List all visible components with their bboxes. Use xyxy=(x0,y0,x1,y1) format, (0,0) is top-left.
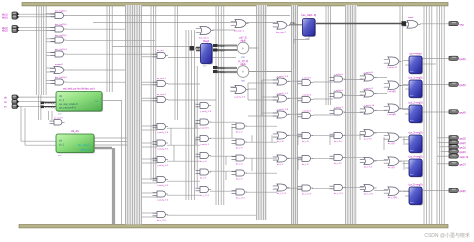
svg-text:+: + xyxy=(242,69,245,74)
svg-text:dec_kg[1]~4: dec_kg[1]~4 xyxy=(55,77,68,79)
svg-text:t_ax-hj~2: t_ax-hj~2 xyxy=(302,76,312,79)
svg-text:ds_t_2~4: ds_t_2~4 xyxy=(302,192,312,195)
svg-text:gw[4]: gw[4] xyxy=(460,112,466,115)
svg-text:t_ax-hj_1~8: t_ax-hj_1~8 xyxy=(277,108,289,111)
svg-text:klk[3]: klk[3] xyxy=(2,28,8,30)
svg-text:ds_t[2]: ds_t[2] xyxy=(388,166,395,169)
svg-text:ds_t_2~6: ds_t_2~6 xyxy=(364,192,374,195)
svg-text:hex_twj~1: hex_twj~1 xyxy=(234,30,245,33)
svg-text:ds_t_2~3: ds_t_2~3 xyxy=(277,192,287,195)
svg-text:klk[1]: klk[1] xyxy=(2,14,8,16)
svg-text:t_ax-hj_1~0: t_ax-hj_1~0 xyxy=(157,131,169,134)
svg-text:clr_1: clr_1 xyxy=(59,99,65,102)
svg-text:ds_t~7: ds_t~7 xyxy=(277,163,284,166)
svg-text:ds_t~1: ds_t~1 xyxy=(200,176,207,179)
svg-text:STATE[0]: STATE[0] xyxy=(45,106,56,109)
svg-text:gw[2]: gw[2] xyxy=(460,142,466,145)
svg-text:t_ax-hj~9: t_ax-hj~9 xyxy=(364,87,374,90)
svg-text:sel[2..0]: sel[2..0] xyxy=(460,156,469,159)
svg-text:clkout_p: clkout_p xyxy=(80,148,90,152)
svg-text:t_ax-hj~8: t_ax-hj~8 xyxy=(364,71,374,74)
svg-text:inst: inst xyxy=(58,113,62,116)
svg-text:t_ax-hj~0: t_ax-hj~0 xyxy=(200,126,210,129)
svg-text:clr_1: clr_1 xyxy=(59,144,65,147)
svg-text:t_ax-hj~7: t_ax-hj~7 xyxy=(334,106,344,109)
svg-text:clk_div: clk_div xyxy=(71,129,80,133)
svg-text:hex_twj~2: hex_twj~2 xyxy=(276,31,287,34)
svg-text:(yx_1~reg0): (yx_1~reg0) xyxy=(409,75,423,79)
svg-text:inst: inst xyxy=(58,154,62,157)
svg-text:klk[0]: klk[0] xyxy=(2,17,8,19)
svg-text:t_ax-hj~10: t_ax-hj~10 xyxy=(364,104,375,107)
svg-text:dec_kg[1]~0: dec_kg[1]~0 xyxy=(55,24,68,26)
svg-text:t_ax-hj_1~5: t_ax-hj_1~5 xyxy=(234,96,246,99)
svg-text:8'h00--: 8'h00-- xyxy=(218,70,226,74)
svg-text:t_ax-hj_1~7: t_ax-hj_1~7 xyxy=(277,92,289,95)
svg-text:t_ax-hj_1~4: t_ax-hj_1~4 xyxy=(157,198,169,201)
svg-text:2'h0--: 2'h0-- xyxy=(290,21,297,25)
svg-text:dec_kg[1]~2: dec_kg[1]~2 xyxy=(55,35,68,37)
svg-text:ax_out~2: ax_out~2 xyxy=(157,93,167,96)
svg-text:dec_kg[1]~1: dec_kg[1]~1 xyxy=(55,11,68,13)
svg-text:ds_t_2~5: ds_t_2~5 xyxy=(334,192,344,195)
svg-text:ds_t~0: ds_t~0 xyxy=(200,160,207,163)
svg-text:ds_t_2~1: ds_t_2~1 xyxy=(200,194,210,197)
svg-text:inst: inst xyxy=(241,56,245,59)
svg-text:ds_t_2~2: ds_t_2~2 xyxy=(236,196,246,199)
svg-text:gw[6]: gw[6] xyxy=(460,58,466,61)
svg-text:inst: inst xyxy=(241,80,245,83)
svg-text:ds_t~8: ds_t~8 xyxy=(302,140,309,143)
svg-text:ds_t~12: ds_t~12 xyxy=(364,137,372,140)
svg-text:inst: inst xyxy=(410,70,414,73)
svg-text:t_ax-hj~6: t_ax-hj~6 xyxy=(334,89,344,92)
svg-text:(yx<=nine): (yx<=nine) xyxy=(409,51,421,55)
svg-text:STATE[1]: STATE[1] xyxy=(45,102,56,105)
svg-text:div_clkout: div_clkout xyxy=(78,143,90,147)
svg-text:gw[3]: gw[3] xyxy=(460,137,466,140)
svg-text:seg: seg xyxy=(460,23,465,26)
svg-text:t_ax-hj[3]: t_ax-hj[3] xyxy=(387,113,397,116)
svg-text:gw[7]: gw[7] xyxy=(460,163,466,166)
svg-text:+: + xyxy=(242,46,245,51)
svg-text:ds_t~9: ds_t~9 xyxy=(302,163,309,166)
svg-text:ax_out~1: ax_out~1 xyxy=(157,77,167,80)
svg-text:gw[1]: gw[1] xyxy=(460,146,466,149)
svg-text:t_ax-hj~3: t_ax-hj~3 xyxy=(302,93,312,96)
svg-text:ds_t~10: ds_t~10 xyxy=(334,140,342,143)
svg-text:qw_paymnell~0: qw_paymnell~0 xyxy=(59,107,76,110)
svg-text:CSDN @小墨与晓禾: CSDN @小墨与晓禾 xyxy=(424,232,470,239)
svg-text:8'h00--: 8'h00-- xyxy=(218,48,226,52)
svg-text:yx_1[7..0]: yx_1[7..0] xyxy=(238,61,248,63)
svg-text:t_ax-hj_1~1: t_ax-hj_1~1 xyxy=(157,147,169,150)
svg-text:equal: equal xyxy=(408,17,414,19)
svg-text:inst: inst xyxy=(410,201,414,204)
svg-text:inst: inst xyxy=(410,119,414,122)
svg-text:t_ax-hj_1~3: t_ax-hj_1~3 xyxy=(157,184,169,187)
svg-text:t_ax-hj~5: t_ax-hj~5 xyxy=(334,73,344,76)
svg-text:8'h00--: 8'h00-- xyxy=(218,44,226,48)
svg-text:ax_out: ax_out xyxy=(157,49,164,52)
svg-text:8'h00--: 8'h00-- xyxy=(218,66,226,70)
svg-text:wd_tied_po-hou'le'dao_po'u: wd_tied_po-hou'le'dao_po'u xyxy=(63,87,96,91)
svg-text:(yx_4~reg0): (yx_4~reg0) xyxy=(409,154,423,158)
svg-text:t_ax-hj~4: t_ax-hj~4 xyxy=(302,109,312,112)
svg-text:t_ax-hj_1~6: t_ax-hj_1~6 xyxy=(277,75,289,78)
svg-text:ds_t~6: ds_t~6 xyxy=(277,140,284,143)
svg-text:t_ax-hj_1~9: t_ax-hj_1~9 xyxy=(200,110,212,113)
svg-text:gw[5]: gw[5] xyxy=(460,84,466,87)
svg-text:gw[8]: gw[8] xyxy=(460,190,466,193)
svg-text:Add0: Add0 xyxy=(240,39,246,42)
svg-text:ds_t~2: ds_t~2 xyxy=(236,130,243,133)
svg-text:ds_t[1]: ds_t[1] xyxy=(388,142,395,145)
svg-text:t_ax-hj_1~2: t_ax-hj_1~2 xyxy=(157,164,169,167)
svg-text:qw_sign_small~0: qw_sign_small~0 xyxy=(59,103,78,106)
svg-text:ds_t~13: ds_t~13 xyxy=(364,165,372,168)
svg-text:inst: inst xyxy=(410,173,414,176)
svg-text:yx[7..0]: yx[7..0] xyxy=(239,37,247,39)
svg-text:inst: inst xyxy=(410,94,414,97)
svg-text:t_ax-hj~11: t_ax-hj~11 xyxy=(387,66,398,69)
svg-text:8'h01: 8'h01 xyxy=(195,47,202,51)
svg-text:rst: rst xyxy=(4,101,7,104)
svg-text:Reg1: Reg1 xyxy=(203,39,210,43)
svg-text:ds_t~5: ds_t~5 xyxy=(236,177,243,180)
svg-text:ds_t_2[3]: ds_t_2[3] xyxy=(388,196,397,199)
svg-text:t_ax-hj~1: t_ax-hj~1 xyxy=(200,143,210,146)
svg-text:klk[2]: klk[2] xyxy=(2,31,8,33)
svg-text:(yx_3~reg0): (yx_3~reg0) xyxy=(409,130,423,134)
svg-text:inst: inst xyxy=(410,149,414,152)
svg-text:hex_twl[1..0]: hex_twl[1..0] xyxy=(301,13,316,17)
svg-text:ax_out~0: ax_out~0 xyxy=(54,117,64,120)
svg-text:t_ax-hj[2]: t_ax-hj[2] xyxy=(387,90,397,93)
svg-text:mstate2: mstate2 xyxy=(55,63,63,66)
svg-text:(yx_5~reg0): (yx_5~reg0) xyxy=(409,182,423,186)
svg-text:(yx_2~reg0): (yx_2~reg0) xyxy=(409,100,423,104)
svg-text:dec_kg[1]~3: dec_kg[1]~3 xyxy=(55,49,68,51)
svg-text:gw[0]: gw[0] xyxy=(460,151,466,154)
svg-text:ds_t~3: ds_t~3 xyxy=(236,146,243,149)
svg-text:ds_t~11: ds_t~11 xyxy=(334,162,342,165)
svg-text:Add1: Add1 xyxy=(240,63,246,66)
svg-text:ds_t~4: ds_t~4 xyxy=(236,162,243,165)
svg-text:inst: inst xyxy=(203,65,207,68)
svg-text:ds_t_2~0: ds_t_2~0 xyxy=(157,219,167,222)
